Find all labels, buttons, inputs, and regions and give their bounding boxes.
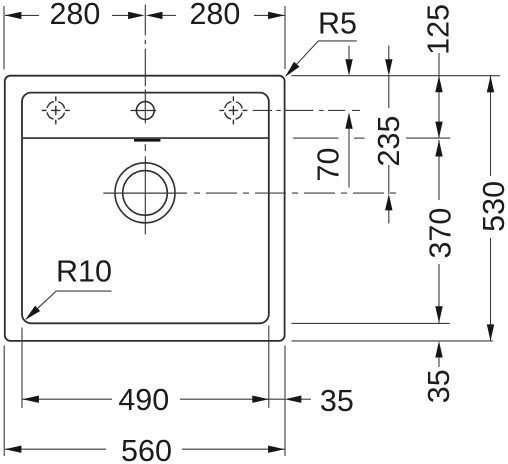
svg-text:70: 70 [312,148,346,182]
right knockout hole [219,96,247,124]
drain outer circle [115,163,175,223]
top edge extension right [292,75,500,77]
arrow 280L right [128,12,145,19]
leader R10 [26,291,111,319]
dim line 560 [5,448,284,450]
arrow 490 left [22,396,39,403]
arrow 35 bottom [285,396,302,403]
svg-text:R5: R5 [318,6,357,40]
sink rim inner edge R10 [22,93,269,324]
arrow 35 right [435,341,442,358]
arrow 280L left [5,12,22,19]
bowl top extension right [293,137,450,139]
extension line x284.6 [284,346,286,457]
drain axis dash-dot [194,192,397,194]
svg-text:280: 280 [189,0,240,31]
arrow 560 left [5,446,22,453]
arrow 235 top [385,59,392,75]
arrow 70 top [345,59,352,75]
vertical center line [144,5,146,235]
svg-text:560: 560 [121,434,172,464]
svg-text:370: 370 [424,208,458,259]
dim line 70 [348,46,350,188]
extension line x22 [21,328,23,409]
arrow 370 top [435,140,442,157]
overflow mark [134,139,160,142]
svg-text:280: 280 [49,0,100,31]
extension line top left [3,6,5,70]
arrow 125 bottom [435,122,442,139]
arrow 530 bottom [487,324,494,341]
center faucet hole [131,102,157,120]
extension line x4.8 [3,346,5,457]
dim line 530 [490,76,492,341]
dim line 490 [22,398,311,400]
extension line x268.8 [268,326,270,409]
sink outer edge [5,76,285,341]
dim line 125-370 [438,53,440,367]
arrow 280R right [268,12,285,19]
svg-text:530: 530 [477,181,508,232]
faucet axis dash-dot [253,109,360,111]
svg-text:125: 125 [422,4,456,55]
drain crosshair horizontal [103,192,187,194]
extension line top right [284,6,286,69]
arrow R10 [25,306,40,320]
svg-text:35: 35 [422,369,456,403]
svg-text:35: 35 [320,384,354,418]
outer bottom extension right [292,340,493,342]
arrow 560 right [268,446,285,453]
arrow 530 top [487,76,494,93]
drain inner circle [123,171,168,216]
bowl top edge [23,137,268,139]
arrow 235 bottom [385,194,392,211]
svg-text:R10: R10 [56,255,112,289]
arrow 125 top [435,76,442,93]
arrow 70 bottom [345,112,352,129]
arrow 490 right [252,396,268,403]
rim bottom extension right [292,322,450,324]
arrow 280R left [146,12,163,19]
leader R5 [286,41,357,76]
arrow R5 [285,62,299,77]
dim line 235 [388,46,390,224]
left knockout hole [42,96,70,124]
dim line 280 right [161,14,284,16]
svg-text:490: 490 [118,383,169,417]
dim line 280 left [5,14,131,16]
arrow 370 bottom [435,306,442,323]
svg-text:235: 235 [372,116,406,167]
